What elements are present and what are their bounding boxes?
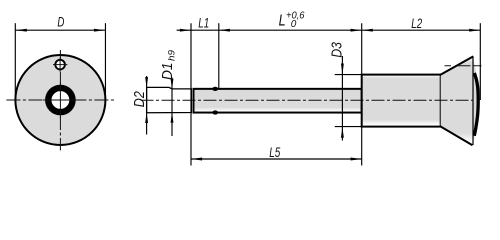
svg-text:L2: L2 [411,15,422,31]
svg-text:L: L [279,12,286,29]
svg-text:L1: L1 [198,15,209,31]
svg-text:D3: D3 [330,42,346,58]
svg-text:0: 0 [291,19,297,30]
svg-text:L5: L5 [269,144,280,160]
svg-text:D: D [57,14,64,30]
svg-text:D2: D2 [132,91,148,107]
